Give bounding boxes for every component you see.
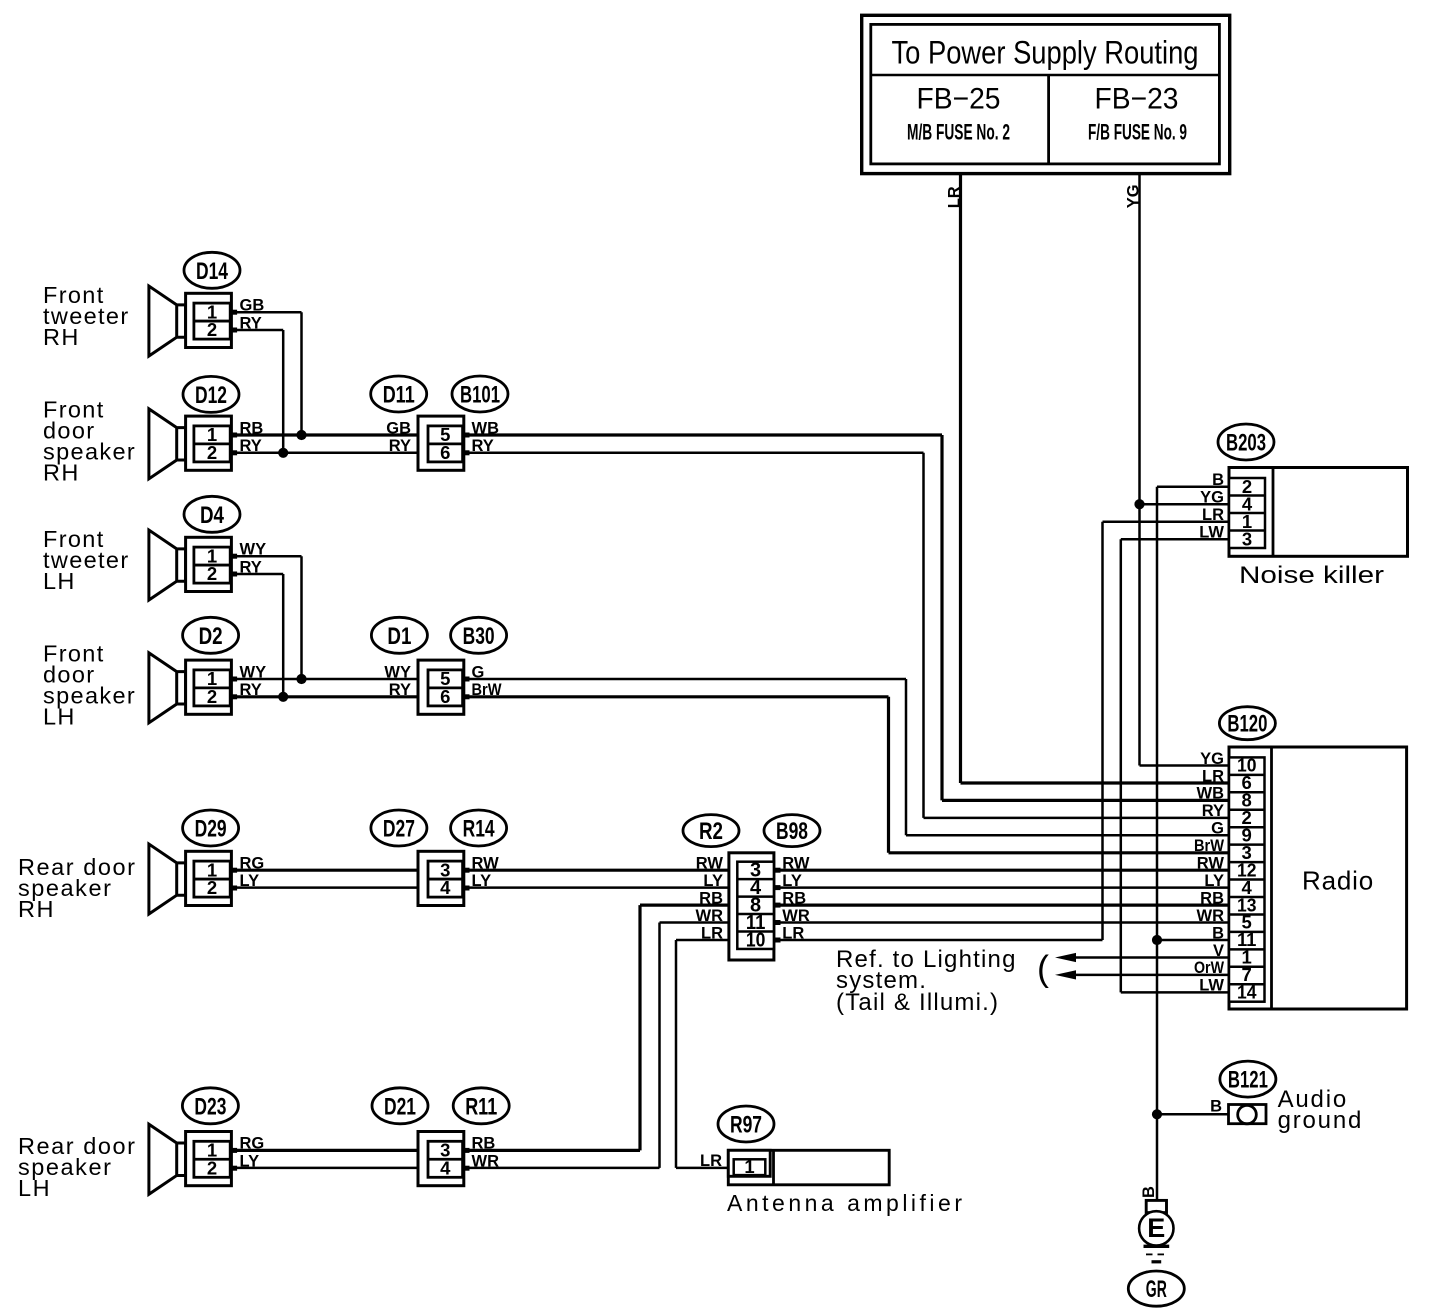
speaker symbol rear door speaker LH <box>149 1124 186 1194</box>
connector D27/R14 pin box <box>418 851 464 905</box>
svg-text:FB−23: FB−23 <box>1095 83 1179 116</box>
svg-text:RY: RY <box>240 558 262 576</box>
wire LR from B98 pin 10 to noise killer pin 1 <box>676 939 1103 942</box>
antenna amplifier box <box>728 1150 889 1185</box>
svg-text:LY: LY <box>1204 872 1224 890</box>
svg-text:2: 2 <box>207 686 217 707</box>
svg-text:ground: ground <box>1278 1107 1364 1134</box>
wire WY/G front door LH pin 1 to radio pin 9 <box>230 678 906 681</box>
svg-text:B: B <box>1212 471 1224 489</box>
arrow OrW to lighting <box>1055 970 1076 979</box>
svg-text:D27: D27 <box>383 816 415 843</box>
connector oval D1 <box>371 617 427 653</box>
connector oval D23 <box>182 1088 238 1124</box>
wire OrW from radio pin 7 to lighting system <box>1074 974 1229 977</box>
svg-text:RY: RY <box>389 437 411 455</box>
connector oval D11 <box>371 376 427 412</box>
svg-text:14: 14 <box>1237 982 1257 1003</box>
speaker symbol front tweeter LH <box>149 530 186 600</box>
svg-text:LH: LH <box>43 704 76 730</box>
connector oval B101 <box>452 376 508 412</box>
power supply routing box <box>862 15 1230 173</box>
svg-text:RW: RW <box>782 855 810 873</box>
svg-text:RH: RH <box>43 324 80 350</box>
connector oval R2 <box>683 815 739 847</box>
svg-text:WB: WB <box>1197 785 1225 803</box>
svg-text:RB: RB <box>699 889 723 907</box>
svg-text:LY: LY <box>782 872 802 890</box>
svg-text:B30: B30 <box>463 623 495 650</box>
wire V from radio pin 1 to lighting system <box>1074 956 1229 959</box>
wire YG branch to noise killer pin 4 <box>1140 503 1230 506</box>
svg-text:LY: LY <box>472 872 492 890</box>
svg-text:D29: D29 <box>195 816 227 843</box>
svg-text:WR: WR <box>1197 907 1225 925</box>
radio box <box>1229 747 1407 1009</box>
connector D2 pin box <box>186 660 232 714</box>
svg-text:B: B <box>1210 1098 1222 1116</box>
svg-text:RY: RY <box>472 437 494 455</box>
svg-text:LR: LR <box>1202 767 1224 785</box>
svg-text:To Power Supply Routing: To Power Supply Routing <box>892 35 1199 71</box>
svg-text:Antenna amplifier: Antenna amplifier <box>727 1190 966 1216</box>
power box title separator <box>871 74 1220 77</box>
svg-text:GR: GR <box>1146 1276 1167 1303</box>
svg-text:B: B <box>1140 1186 1158 1198</box>
wire LR from FB-25 to radio pin 6 <box>959 174 962 783</box>
wire RY/BrW front door LH pin 2 to radio pin 3 <box>230 695 889 698</box>
arrow V to lighting <box>1055 953 1076 962</box>
connector oval D12 <box>183 376 239 412</box>
svg-text:LY: LY <box>703 872 723 890</box>
wire RG/RB rear door LH pin 1 to radio pin 13 <box>230 1149 640 1152</box>
svg-text:D2: D2 <box>199 623 223 650</box>
svg-text:E: E <box>1147 1213 1165 1243</box>
wire RY front tweeter LH pin 2 <box>230 573 283 576</box>
wire WY front tweeter LH pin 1 <box>230 555 302 558</box>
svg-text:LH: LH <box>43 568 76 594</box>
wire LR branch down to antenna amplifier <box>675 940 678 1168</box>
connector D29 pin box <box>186 851 232 905</box>
wire RY front tweeter RH pin 2 <box>230 329 283 332</box>
svg-text:B203: B203 <box>1226 430 1266 457</box>
svg-text:F/B FUSE No. 9: F/B FUSE No. 9 <box>1088 120 1187 145</box>
svg-text:FB−25: FB−25 <box>917 83 1001 116</box>
svg-text:6: 6 <box>440 442 450 463</box>
svg-text:LW: LW <box>1199 977 1224 995</box>
svg-text:GB: GB <box>240 297 265 315</box>
svg-text:4: 4 <box>440 1157 451 1178</box>
ground connector small box <box>1146 1200 1166 1212</box>
R97 pin box <box>728 1150 770 1176</box>
svg-text:LR: LR <box>701 924 723 942</box>
svg-text:D1: D1 <box>387 623 411 650</box>
svg-text:D23: D23 <box>194 1093 226 1120</box>
connector R2/B98 box <box>729 853 774 960</box>
svg-text:RW: RW <box>696 855 724 873</box>
svg-text:RY: RY <box>389 681 411 699</box>
wire LW from noise killer pin 3 to radio pin 14 <box>1121 538 1229 541</box>
svg-text:WR: WR <box>782 907 810 925</box>
svg-text:LR: LR <box>782 924 804 942</box>
svg-text:V: V <box>1213 942 1224 960</box>
speaker symbol rear door speaker RH <box>149 844 186 914</box>
junction B audio ground <box>1152 1109 1162 1119</box>
svg-text:GB: GB <box>386 419 411 437</box>
connector oval B203 <box>1218 424 1274 460</box>
B203 pin cells <box>1229 478 1265 548</box>
B120 pin cells <box>1229 757 1265 1001</box>
wire GB/WB front door RH pin 1 to radio pin 8 <box>230 433 942 436</box>
connector oval D4 <box>184 496 240 532</box>
svg-text:B98: B98 <box>776 818 808 845</box>
ground code oval GR <box>1128 1271 1184 1306</box>
connector oval R14 <box>451 810 507 846</box>
svg-text:RB: RB <box>240 419 264 437</box>
svg-text:WB: WB <box>472 419 500 437</box>
svg-text:BrW: BrW <box>1194 837 1224 855</box>
wire LY rear door RH pin 2 to radio pin 4 <box>230 886 1229 889</box>
wire YG from FB-23 to radio pin 10 <box>1138 174 1141 766</box>
svg-text:WY: WY <box>240 663 267 681</box>
connector D11/B101 pin box <box>418 416 464 470</box>
svg-text:2: 2 <box>207 563 217 584</box>
svg-text:10: 10 <box>746 929 766 951</box>
connector oval B120 <box>1219 707 1275 740</box>
svg-text:3: 3 <box>1242 528 1252 549</box>
B98 right side stubs <box>773 868 781 873</box>
svg-text:RG: RG <box>240 855 265 873</box>
connector D14 pin box <box>186 293 232 347</box>
wire GB front tweeter RH pin 1 <box>230 311 302 314</box>
speaker symbol front door speaker LH <box>149 653 186 723</box>
svg-text:2: 2 <box>207 877 217 898</box>
connector oval B98 <box>764 815 820 847</box>
wire LY/WR rear door LH pin 2 to radio pin 5 <box>230 1167 660 1170</box>
svg-text:WR: WR <box>472 1153 500 1171</box>
noise killer inner divider <box>1272 468 1275 557</box>
svg-text:R97: R97 <box>730 1112 762 1139</box>
svg-text:Radio: Radio <box>1302 865 1374 895</box>
connector oval R11 <box>453 1088 509 1124</box>
svg-text:B121: B121 <box>1228 1067 1268 1094</box>
svg-text:BrW: BrW <box>472 681 502 699</box>
junction B radio <box>1152 935 1162 945</box>
connector D4 pin box <box>186 537 232 591</box>
svg-text:RW: RW <box>1197 855 1225 873</box>
svg-text:D11: D11 <box>383 382 415 409</box>
svg-text:YG: YG <box>1200 750 1224 768</box>
svg-text:RY: RY <box>240 681 262 699</box>
svg-text:(: ( <box>1037 948 1049 989</box>
svg-text:R14: R14 <box>463 816 495 843</box>
connector D23 pin box <box>186 1132 232 1186</box>
junction RY front RH <box>278 448 288 458</box>
junction WY front LH <box>296 674 306 684</box>
antenna amplifier inner divider <box>772 1150 775 1185</box>
svg-text:6: 6 <box>440 686 450 707</box>
svg-text:R11: R11 <box>465 1093 497 1120</box>
svg-text:WY: WY <box>240 541 267 559</box>
wire RG/RW rear door RH pin 1 to radio pin 12 <box>230 869 1229 872</box>
svg-text:LY: LY <box>240 872 260 890</box>
audio ground connector symbol <box>1229 1105 1267 1124</box>
connector oval D27 <box>371 810 427 846</box>
svg-text:B120: B120 <box>1227 711 1267 738</box>
connector oval B30 <box>451 617 507 653</box>
svg-text:RY: RY <box>240 314 262 332</box>
wire RY front door RH pin 2 to radio pin 2 <box>230 452 924 455</box>
connector oval D2 <box>183 617 239 653</box>
svg-text:LR: LR <box>700 1152 722 1170</box>
svg-text:D21: D21 <box>384 1093 416 1120</box>
svg-text:OrW: OrW <box>1194 959 1224 977</box>
wire B branch to radio pin 11 <box>1157 939 1229 942</box>
svg-text:2: 2 <box>207 1157 217 1178</box>
svg-text:1: 1 <box>744 1156 754 1177</box>
svg-text:RB: RB <box>1200 889 1224 907</box>
connector oval D21 <box>372 1088 428 1124</box>
noise killer box <box>1229 468 1408 557</box>
svg-text:B: B <box>1212 924 1224 942</box>
svg-text:R2: R2 <box>699 818 723 845</box>
speaker symbol front tweeter RH <box>149 286 186 356</box>
svg-text:RY: RY <box>240 437 262 455</box>
svg-text:RG: RG <box>240 1135 265 1153</box>
svg-text:LW: LW <box>1199 524 1224 542</box>
svg-text:D12: D12 <box>195 382 227 409</box>
speaker symbol front door speaker RH <box>149 409 186 479</box>
svg-text:LR: LR <box>1202 506 1224 524</box>
svg-text:RH: RH <box>18 896 55 922</box>
svg-text:LY: LY <box>240 1153 260 1171</box>
svg-text:D4: D4 <box>200 502 225 529</box>
junction GB front RH <box>296 430 306 440</box>
svg-text:RY: RY <box>1202 802 1224 820</box>
svg-text:LH: LH <box>18 1175 51 1201</box>
svg-text:LR: LR <box>946 186 964 208</box>
svg-text:G: G <box>1211 820 1224 838</box>
svg-text:WY: WY <box>384 663 411 681</box>
svg-text:G: G <box>472 663 485 681</box>
svg-text:B101: B101 <box>460 382 500 409</box>
connector oval D14 <box>184 252 240 288</box>
svg-text:2: 2 <box>207 319 217 340</box>
svg-text:RB: RB <box>472 1135 496 1153</box>
svg-text:WR: WR <box>696 907 724 925</box>
svg-text:RB: RB <box>782 889 806 907</box>
connector D12 pin box <box>186 416 232 470</box>
wire B from noise killer pin 2 down to ground <box>1157 485 1229 488</box>
connector oval D29 <box>183 810 239 846</box>
svg-text:(Tail & Illumi.): (Tail & Illumi.) <box>836 989 999 1016</box>
svg-text:M/B FUSE No. 2: M/B FUSE No. 2 <box>907 120 1010 145</box>
svg-text:RW: RW <box>472 855 500 873</box>
connector D1/B30 pin box <box>418 660 464 714</box>
radio inner divider <box>1270 747 1273 1009</box>
ground hatch lines <box>1144 1245 1170 1248</box>
junction YG noise killer <box>1134 499 1144 509</box>
svg-text:Noise killer: Noise killer <box>1239 562 1384 589</box>
svg-text:4: 4 <box>440 877 451 898</box>
svg-text:YG: YG <box>1200 489 1224 507</box>
svg-text:D14: D14 <box>196 258 228 285</box>
svg-text:YG: YG <box>1125 184 1143 208</box>
connector D21/R11 pin box <box>418 1132 464 1186</box>
junction RY front LH <box>278 692 288 702</box>
wire B branch to audio ground connector <box>1157 1113 1228 1116</box>
connector oval R97 <box>718 1106 774 1142</box>
svg-text:2: 2 <box>207 442 217 463</box>
power box column divider <box>1047 75 1050 164</box>
ground symbol E circle <box>1139 1211 1173 1245</box>
svg-text:RH: RH <box>43 460 80 486</box>
connector oval B121 <box>1220 1061 1276 1097</box>
